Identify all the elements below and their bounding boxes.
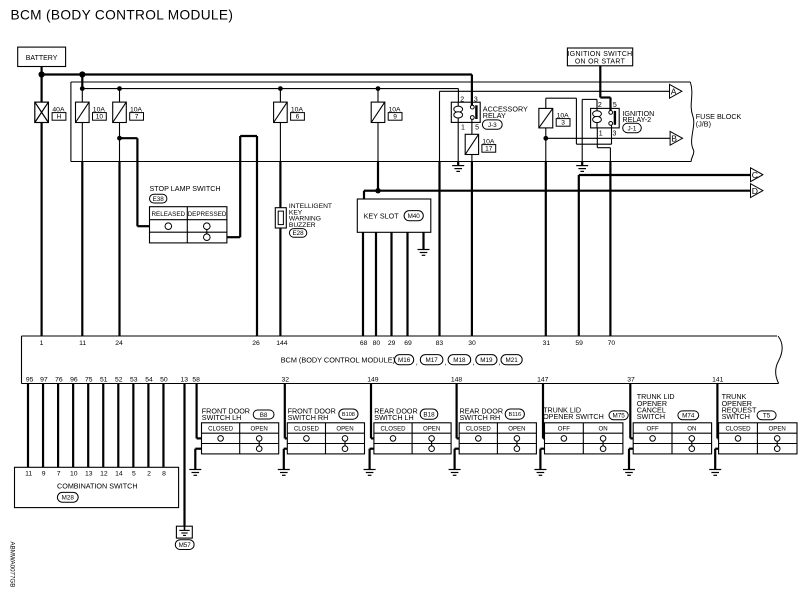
- svg-text:83: 83: [436, 340, 444, 347]
- svg-text:COMBINATION SWITCH: COMBINATION SWITCH: [57, 482, 138, 491]
- svg-text:10: 10: [70, 471, 78, 478]
- svg-text:30: 30: [468, 340, 476, 347]
- svg-text:SWITCH LH: SWITCH LH: [374, 413, 414, 422]
- svg-text:9: 9: [42, 471, 46, 478]
- svg-text:CLOSED: CLOSED: [725, 426, 751, 433]
- svg-text:,: ,: [472, 358, 474, 367]
- svg-text:5: 5: [613, 102, 617, 109]
- svg-text:J-3: J-3: [488, 122, 497, 129]
- svg-text:CLOSED: CLOSED: [380, 426, 406, 433]
- svg-text:5: 5: [132, 471, 136, 478]
- svg-text:T5: T5: [763, 413, 771, 420]
- svg-text:3: 3: [474, 96, 478, 103]
- svg-text:OFF: OFF: [558, 426, 570, 433]
- svg-text:141: 141: [712, 376, 724, 383]
- svg-text:CLOSED: CLOSED: [208, 426, 234, 433]
- svg-text:24: 24: [115, 340, 123, 347]
- svg-text:CLOSED: CLOSED: [466, 426, 492, 433]
- svg-text:SWITCH LH: SWITCH LH: [202, 413, 242, 422]
- svg-text:95: 95: [26, 376, 34, 383]
- svg-text:37: 37: [627, 376, 635, 383]
- svg-text:M16: M16: [398, 357, 411, 364]
- svg-text:2: 2: [598, 102, 602, 109]
- svg-text:,: ,: [445, 358, 447, 367]
- svg-text:26: 26: [252, 340, 260, 347]
- svg-text:5: 5: [475, 124, 479, 131]
- svg-text:B: B: [671, 134, 677, 144]
- svg-text:11: 11: [79, 340, 86, 347]
- svg-text:96: 96: [70, 376, 78, 383]
- svg-text:3: 3: [561, 120, 565, 127]
- svg-text:ON OR START: ON OR START: [575, 59, 626, 66]
- svg-text:BCM (BODY CONTROL MODULE): BCM (BODY CONTROL MODULE): [281, 355, 395, 364]
- svg-text:80: 80: [373, 340, 381, 347]
- svg-text:2: 2: [460, 96, 464, 103]
- svg-text:,: ,: [499, 358, 501, 367]
- svg-text:75: 75: [85, 376, 93, 383]
- svg-text:11: 11: [25, 471, 32, 478]
- svg-text:70: 70: [608, 340, 616, 347]
- svg-text:OPEN: OPEN: [336, 426, 353, 433]
- svg-text:17: 17: [485, 146, 493, 153]
- svg-text:M40: M40: [408, 213, 421, 220]
- svg-text:14: 14: [115, 471, 123, 478]
- svg-text:7: 7: [57, 471, 61, 478]
- svg-text:OPENER SWITCH: OPENER SWITCH: [543, 412, 604, 421]
- svg-text:BUZZER: BUZZER: [289, 222, 316, 229]
- svg-text:97: 97: [40, 376, 48, 383]
- svg-text:SWITCH RH: SWITCH RH: [288, 413, 329, 422]
- svg-text:68: 68: [360, 340, 368, 347]
- svg-text:M19: M19: [480, 357, 493, 364]
- svg-text:32: 32: [282, 376, 290, 383]
- svg-text:D: D: [752, 186, 758, 196]
- svg-text:B116: B116: [508, 412, 521, 418]
- svg-text:OFF: OFF: [647, 426, 659, 433]
- svg-text:59: 59: [575, 340, 583, 347]
- svg-text:B108: B108: [342, 412, 355, 418]
- svg-text:DEPRESSED: DEPRESSED: [188, 211, 227, 218]
- svg-text:SWITCH RH: SWITCH RH: [460, 413, 501, 422]
- svg-text:M74: M74: [682, 413, 695, 420]
- svg-text:E28: E28: [292, 230, 304, 237]
- svg-text:A: A: [671, 87, 677, 97]
- svg-text:(J/B): (J/B): [696, 120, 711, 129]
- svg-text:ABMWA0077GB: ABMWA0077GB: [9, 542, 16, 588]
- svg-text:6: 6: [296, 114, 300, 121]
- svg-text:2: 2: [147, 471, 151, 478]
- svg-text:ON: ON: [687, 426, 696, 433]
- svg-text:RELAY: RELAY: [483, 111, 506, 120]
- svg-text:1: 1: [599, 131, 603, 138]
- svg-text:9: 9: [393, 114, 397, 121]
- svg-text:8: 8: [162, 471, 166, 478]
- svg-text:SWITCH: SWITCH: [722, 412, 750, 421]
- svg-text:147: 147: [537, 376, 549, 383]
- svg-text:12: 12: [100, 471, 108, 478]
- svg-text:OPEN: OPEN: [251, 426, 268, 433]
- svg-text:M18: M18: [453, 357, 466, 364]
- svg-text:OPEN: OPEN: [769, 426, 786, 433]
- svg-text:1: 1: [461, 124, 465, 131]
- svg-text:RELEASED: RELEASED: [151, 211, 185, 218]
- svg-text:13: 13: [181, 376, 189, 383]
- svg-text:50: 50: [160, 376, 168, 383]
- svg-text:BCM (BODY CONTROL MODULE): BCM (BODY CONTROL MODULE): [11, 7, 234, 22]
- svg-text:148: 148: [451, 376, 463, 383]
- svg-text:IGNITION SWITCH: IGNITION SWITCH: [568, 51, 633, 58]
- svg-text:7: 7: [135, 114, 139, 121]
- svg-text:76: 76: [55, 376, 63, 383]
- svg-text:69: 69: [404, 340, 412, 347]
- svg-text:M75: M75: [612, 413, 625, 420]
- svg-text:3: 3: [613, 131, 617, 138]
- svg-text:58: 58: [192, 376, 200, 383]
- svg-text:51: 51: [100, 376, 108, 383]
- svg-text:31: 31: [543, 340, 551, 347]
- svg-text:13: 13: [85, 471, 93, 478]
- svg-text:KEY SLOT: KEY SLOT: [364, 211, 400, 220]
- svg-text:149: 149: [367, 376, 379, 383]
- svg-text:B18: B18: [423, 411, 435, 418]
- svg-text:144: 144: [276, 340, 288, 347]
- svg-text:STOP LAMP SWITCH: STOP LAMP SWITCH: [150, 184, 221, 193]
- svg-text:29: 29: [388, 340, 396, 347]
- svg-text:OPEN: OPEN: [423, 426, 440, 433]
- svg-text:BATTERY: BATTERY: [26, 55, 58, 62]
- svg-text:OPEN: OPEN: [508, 426, 525, 433]
- svg-text:J-1: J-1: [628, 125, 637, 132]
- svg-text:M57: M57: [179, 542, 192, 549]
- svg-text:54: 54: [145, 376, 153, 383]
- svg-text:C: C: [752, 170, 758, 180]
- svg-text:10: 10: [96, 114, 104, 121]
- svg-text:E38: E38: [153, 196, 165, 203]
- svg-text:M21: M21: [505, 357, 518, 364]
- svg-text:M17: M17: [425, 357, 438, 364]
- svg-text:1: 1: [40, 340, 44, 347]
- svg-text:B8: B8: [260, 412, 268, 419]
- svg-text:CLOSED: CLOSED: [294, 426, 320, 433]
- svg-text:ON: ON: [599, 426, 608, 433]
- svg-text:52: 52: [115, 376, 123, 383]
- svg-text:H: H: [57, 114, 62, 121]
- svg-text:M28: M28: [62, 495, 75, 502]
- svg-text:SWITCH: SWITCH: [637, 412, 665, 421]
- svg-text:,: ,: [416, 358, 418, 367]
- svg-text:53: 53: [130, 376, 138, 383]
